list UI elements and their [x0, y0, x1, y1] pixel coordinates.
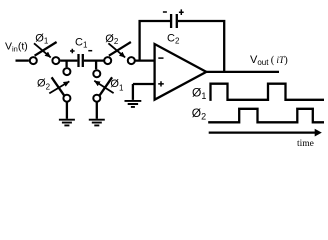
svg-text:time: time	[297, 139, 314, 149]
svg-text:Ø2: Ø2	[192, 106, 206, 122]
svg-text:Vout: Vout	[250, 54, 269, 67]
svg-text:Ø2: Ø2	[105, 33, 119, 46]
svg-text:Vin(t): Vin(t)	[5, 41, 28, 54]
svg-text:Ø1: Ø1	[192, 86, 206, 102]
svg-text:Ø1: Ø1	[110, 78, 124, 92]
svg-text:Ø1: Ø1	[35, 33, 49, 46]
svg-text:(: (	[271, 55, 275, 66]
svg-text:): )	[284, 55, 288, 66]
svg-text:C1: C1	[75, 36, 88, 49]
svg-text:C2: C2	[167, 32, 180, 45]
svg-text:Ø2: Ø2	[37, 77, 51, 91]
